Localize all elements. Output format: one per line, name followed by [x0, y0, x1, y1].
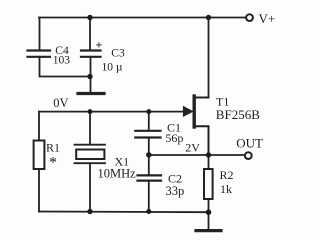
svg-text:R2: R2 — [220, 168, 234, 182]
svg-text:10MHz: 10MHz — [98, 167, 137, 181]
wire left branch upper (rail to R1) — [38, 112, 40, 141]
transistor T1 drain lead — [195, 97, 209, 99]
wire C3 drop from top rail — [89, 18, 91, 50]
resistor R1 — [34, 141, 45, 170]
node junction dot bottom rail right — [206, 209, 212, 215]
node A junction dot C1-C2 — [146, 152, 151, 157]
svg-text:33p: 33p — [166, 184, 185, 198]
wire drain drop — [208, 18, 210, 98]
wire crystal drop — [89, 112, 91, 145]
wire C2 top — [148, 155, 150, 175]
wire C3 bottom to ground — [90, 57, 92, 92]
wire R2 bottom lead — [208, 199, 210, 212]
node junction dot gate rail at X1 — [88, 109, 93, 114]
wire crystal bottom — [89, 163, 91, 211]
wire C1 bottom to node A — [148, 138, 150, 156]
wire left drop to C4 — [39, 18, 41, 50]
capacitor C1 — [135, 131, 160, 138]
ground (bottom) — [196, 229, 221, 232]
svg-text:2V: 2V — [185, 141, 200, 155]
node junction dot C4-C3 — [87, 74, 92, 79]
transistor T1 source lead — [195, 126, 209, 155]
transistor T1 gate arrow — [183, 107, 192, 117]
wire C4 bottom to junction — [40, 57, 91, 77]
ground (under C3) — [78, 92, 104, 95]
capacitor C2 — [138, 175, 162, 180]
svg-text:1k: 1k — [220, 182, 232, 196]
node junction dot X1 bottom — [87, 209, 92, 214]
wire node A to OUT — [149, 154, 246, 156]
svg-text:OUT: OUT — [236, 136, 263, 151]
wire C1 drop from gate rail — [148, 112, 150, 130]
transistor T1 channel bar — [192, 96, 195, 127]
crystal X1 — [75, 145, 106, 164]
wire R2 top lead — [208, 155, 210, 169]
wire bottom rail — [39, 211, 209, 214]
svg-text:103: 103 — [53, 55, 71, 67]
wire top V+ rail — [39, 17, 246, 19]
wire left branch lower (R1 to bottom rail) — [38, 169, 40, 212]
terminal V+ — [246, 14, 253, 21]
node junction dot source — [206, 152, 211, 157]
node junction dot C2 bottom — [146, 209, 151, 214]
svg-text:+: + — [96, 38, 103, 52]
svg-text:56p: 56p — [165, 131, 183, 145]
wire ground stub — [208, 212, 210, 230]
resistor R2 — [204, 169, 213, 199]
svg-text:0V: 0V — [53, 96, 68, 110]
capacitor C4 — [28, 51, 51, 57]
node junction dot top rail at drain — [206, 15, 211, 20]
capacitor C3 — [81, 51, 101, 57]
svg-text:10 µ: 10 µ — [102, 61, 123, 73]
svg-text:V+: V+ — [259, 11, 276, 26]
svg-text:*: * — [49, 155, 57, 172]
wire C2 bottom — [148, 181, 150, 212]
node junction dot gate rail at C1 — [146, 109, 151, 114]
node junction dot top rail at C3 — [87, 15, 92, 20]
svg-text:C3: C3 — [111, 48, 125, 60]
svg-text:BF256B: BF256B — [216, 107, 260, 122]
svg-text:R1: R1 — [46, 141, 60, 155]
terminal OUT — [245, 152, 252, 159]
wire gate rail 0V — [39, 111, 185, 113]
